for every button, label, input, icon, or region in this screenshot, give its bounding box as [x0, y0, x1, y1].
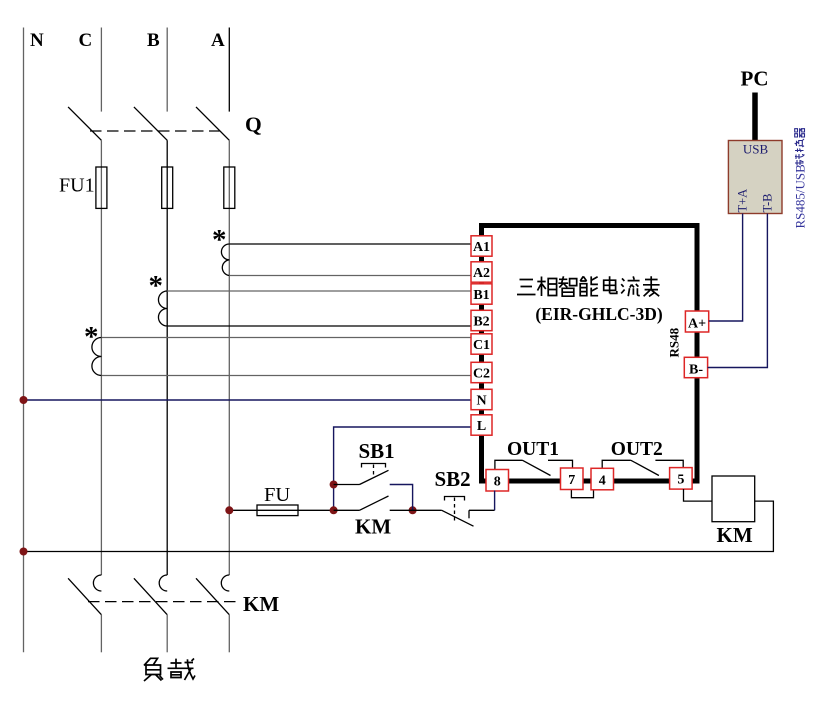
svg-text:T+A: T+A	[736, 189, 750, 213]
terminal C1	[471, 334, 492, 354]
meter title char 电	[604, 276, 617, 293]
svg-text:*: *	[149, 270, 164, 302]
CT phase B coil	[158, 291, 167, 326]
svg-text:C2: C2	[473, 367, 490, 382]
contactor KM main contact B blade	[134, 578, 167, 614]
converter side label char 器	[795, 128, 805, 137]
svg-text:OUT2: OUT2	[611, 439, 663, 460]
svg-text:B1: B1	[473, 288, 489, 303]
svg-text:A+: A+	[688, 317, 706, 332]
terminal 4	[591, 468, 614, 490]
wire phase C bottom	[100, 615, 102, 653]
meter title char 表	[643, 276, 660, 296]
contactor KM main contact C blade	[68, 578, 101, 614]
wire converter T+A to terminal A+	[709, 214, 743, 322]
svg-text:L: L	[477, 419, 486, 434]
wire link terminals 7-4	[571, 490, 593, 498]
meter title char 相	[537, 277, 556, 297]
wire CT-C to terminal C1	[101, 337, 471, 339]
converter side label char 换	[795, 139, 804, 152]
terminal A1	[471, 236, 492, 256]
svg-text:KM: KM	[355, 515, 391, 539]
terminal B2	[471, 310, 492, 330]
meter title char 智	[558, 276, 576, 296]
fuse FU1 pole C	[96, 167, 107, 208]
svg-text:B: B	[147, 30, 160, 51]
pushbutton SB2 fixed contact tick	[468, 510, 470, 518]
contactor KM aux contact left stub	[334, 509, 360, 511]
contactor KM main contact A blade	[196, 578, 229, 614]
wire phase C top stub	[100, 28, 102, 112]
svg-text:8: 8	[494, 475, 501, 490]
svg-text:7: 7	[568, 473, 575, 488]
junction dot SB1 branch left	[330, 481, 338, 489]
pushbutton SB1 blade	[360, 470, 389, 484]
converter RS485/USB box	[728, 141, 782, 214]
contact OUT1 leads	[495, 460, 573, 469]
terminal 5	[670, 468, 693, 490]
terminal A+	[685, 311, 708, 332]
terminal B-	[684, 357, 707, 377]
meter title char 三	[517, 280, 536, 295]
wire N bus to terminal N	[24, 399, 472, 401]
svg-text:PC: PC	[741, 67, 769, 91]
contactor KM aux contact right lead	[390, 509, 413, 511]
svg-text:N: N	[30, 30, 44, 51]
svg-text:A: A	[211, 30, 225, 51]
svg-text:FU1: FU1	[59, 175, 95, 197]
junction dot N bus upper	[20, 396, 28, 404]
wire phase B top stub	[166, 28, 168, 112]
wire phase A middle	[228, 140, 230, 575]
terminal C2	[471, 362, 492, 382]
svg-text:OUT1: OUT1	[507, 439, 559, 460]
wire CT-C to terminal C2	[101, 375, 471, 377]
breaker Q pole A blade	[196, 107, 229, 140]
terminal L	[471, 415, 492, 435]
svg-text:RS48: RS48	[667, 327, 682, 357]
svg-text:*: *	[212, 224, 227, 256]
wire CT-B to terminal B2	[167, 325, 471, 327]
pushbutton SB2 blade	[442, 510, 474, 526]
contactor KM main linkage dashed	[88, 601, 238, 603]
svg-text:C1: C1	[473, 338, 490, 353]
wire KM coil return to N bus	[24, 501, 774, 551]
svg-text:USB: USB	[743, 142, 769, 157]
svg-text:FU: FU	[264, 484, 290, 506]
svg-text:(EIR-GHLC-3D): (EIR-GHLC-3D)	[535, 304, 663, 324]
breaker Q linkage dashed	[90, 130, 220, 132]
terminal 7	[561, 468, 584, 490]
pushbutton SB2 right lead	[469, 509, 495, 511]
converter pin T+A label	[736, 189, 750, 213]
svg-text:N: N	[476, 394, 486, 409]
USB cable PC to converter	[752, 93, 758, 141]
contact OUT2 blade	[631, 460, 659, 475]
meter U1 box outline	[482, 226, 698, 482]
contactor KM main contact C arc	[93, 575, 101, 591]
contact OUT1 blade	[523, 460, 551, 475]
wire CT-B to terminal B1	[167, 290, 471, 292]
svg-text:RS485/USB: RS485/USB	[793, 164, 808, 229]
wire converter T-B to terminal B-	[708, 214, 768, 368]
svg-text:A2: A2	[473, 266, 490, 281]
svg-text:4: 4	[599, 473, 606, 488]
fuse FU1 pole A	[224, 167, 235, 208]
meter RS48 port label	[667, 327, 682, 357]
meter title char 流	[621, 276, 640, 296]
svg-text:T-B: T-B	[761, 194, 775, 213]
terminal B1	[471, 284, 492, 304]
svg-text:C: C	[79, 30, 93, 51]
contactor KM main contact A arc	[221, 575, 229, 591]
svg-text:B2: B2	[473, 315, 489, 330]
breaker Q pole B blade	[134, 107, 167, 140]
junction dot main line right	[409, 506, 417, 514]
junction dot main line left	[330, 506, 338, 514]
converter side label char 转	[795, 154, 804, 166]
wire SB2 to terminal 8	[494, 491, 496, 511]
fuse FU	[257, 505, 298, 516]
breaker Q pole C blade	[68, 107, 101, 140]
CT phase C coil	[92, 338, 102, 376]
junction dot control tap on phase A	[225, 506, 233, 514]
wire phase B middle	[166, 140, 168, 575]
pushbutton SB1 left stub	[334, 484, 360, 486]
svg-text:KM: KM	[243, 592, 279, 616]
terminal 8	[486, 470, 509, 492]
wire terminal 5 to KM coil	[684, 489, 713, 501]
svg-text:KM: KM	[717, 523, 753, 547]
contactor KM coil	[712, 476, 755, 522]
contact OUT2 leads	[602, 460, 683, 468]
svg-text:SB2: SB2	[435, 467, 471, 491]
wire phase A top stub	[228, 28, 230, 112]
terminal N	[471, 389, 492, 409]
svg-text:5: 5	[677, 473, 684, 488]
fuse FU1 pole B	[162, 167, 173, 208]
terminal A2	[471, 262, 492, 282]
svg-text:SB1: SB1	[359, 439, 395, 463]
junction dot N bus lower	[20, 548, 28, 556]
contactor KM aux contact blade	[360, 496, 389, 510]
svg-text:*: *	[84, 321, 99, 353]
wire phase C middle	[100, 140, 102, 575]
wire N bus vertical	[23, 28, 25, 653]
svg-text:Q: Q	[245, 113, 262, 137]
pushbutton SB2 actuator	[445, 497, 465, 501]
contactor KM main contact B arc	[159, 575, 167, 591]
wire CT-A to terminal A1	[229, 243, 471, 245]
wire control feed from phase A through FU	[229, 509, 333, 511]
svg-text:A1: A1	[473, 240, 490, 255]
wire phase B bottom	[166, 615, 168, 653]
load label char 负	[144, 658, 163, 681]
wire terminal L to SB1 branch	[334, 427, 471, 510]
wire phase A bottom	[228, 615, 230, 653]
converter side label RS485/USB	[793, 128, 808, 228]
load label char 载	[168, 659, 196, 681]
pushbutton SB1 right lead	[390, 485, 413, 511]
pushbutton SB1 actuator	[362, 464, 386, 468]
meter title char 能	[580, 276, 598, 295]
CT phase A coil	[221, 244, 229, 276]
svg-text:B-: B-	[689, 363, 703, 378]
converter pin T-B label	[761, 194, 775, 213]
pushbutton SB2 left lead	[413, 509, 442, 511]
wire CT-A to terminal A2	[229, 275, 471, 277]
